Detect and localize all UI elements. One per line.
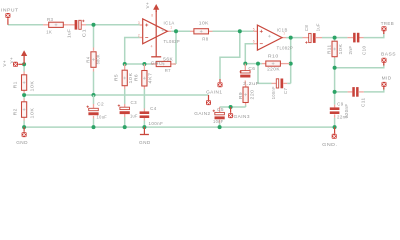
svg-text:1uF: 1uF bbox=[130, 113, 138, 119]
wire C9 to bottom bus bbox=[334, 118, 336, 127]
wire R7 to feedback riser bbox=[174, 63, 177, 65]
wire feedback bus IC1B bbox=[245, 63, 262, 65]
svg-text:2nF: 2nF bbox=[348, 46, 353, 55]
capacitor C3 bbox=[124, 104, 126, 107]
resistor R6 bbox=[143, 64, 145, 71]
wire C7 branch bbox=[258, 64, 272, 84]
op-amp IC1A triangle bbox=[140, 24, 143, 26]
wire C11 to MID pad riser bbox=[364, 88, 384, 92]
svg-text:R1: R1 bbox=[12, 81, 17, 88]
wire node C to R11 bbox=[334, 38, 336, 42]
wire bass row to pad bbox=[335, 64, 384, 68]
junction C7 branch node bbox=[256, 62, 260, 66]
svg-text:4K7: 4K7 bbox=[148, 73, 153, 84]
resistor R4 bbox=[93, 48, 95, 51]
resistor R3 bbox=[43, 24, 49, 26]
capacitor C10 bbox=[347, 37, 353, 39]
svg-text:V+: V+ bbox=[145, 2, 150, 9]
svg-text:10K: 10K bbox=[30, 107, 35, 119]
junction bottom bus C5 bbox=[218, 125, 222, 129]
capacitor C8 bbox=[303, 37, 309, 39]
resistor R11 bbox=[334, 41, 336, 43]
junction bottom bus R2 bbox=[22, 125, 26, 129]
svg-text:GAIN2: GAIN2 bbox=[194, 111, 210, 117]
capacitor C4 bbox=[143, 109, 145, 112]
wire bass node to mid node bbox=[334, 68, 336, 92]
op-amp IC1A power line bbox=[155, 11, 157, 57]
junction GAIN3 node bbox=[229, 105, 233, 109]
wire C7 right to riser bbox=[287, 82, 291, 84]
svg-text:TL082P: TL082P bbox=[277, 45, 294, 51]
svg-text:10nF: 10nF bbox=[213, 119, 224, 125]
svg-text:GND: GND bbox=[139, 140, 151, 146]
junction R4 mid bus bbox=[92, 93, 96, 97]
svg-text:IC1B: IC1B bbox=[277, 27, 288, 33]
wire node A vertical to R4 bbox=[93, 25, 95, 48]
supply symbol V+ arrow left bbox=[21, 50, 27, 64]
svg-text:10K: 10K bbox=[30, 80, 35, 92]
capacitor C1 bbox=[68, 24, 74, 26]
svg-text:C2: C2 bbox=[97, 101, 104, 107]
connector pad GAIN1 bbox=[219, 79, 221, 82]
svg-text:C10: C10 bbox=[362, 46, 367, 56]
junction bottom bus C9 bbox=[333, 125, 337, 129]
wire R4 to mid bus bbox=[93, 72, 95, 96]
connector pad MID bbox=[383, 87, 385, 90]
svg-text:TL082P: TL082P bbox=[164, 39, 181, 45]
svg-text:GND.: GND. bbox=[322, 142, 337, 148]
svg-text:BASS: BASS bbox=[381, 52, 396, 58]
plus marker IC1A bbox=[145, 24, 148, 27]
op-amp IC1B triangle bbox=[254, 30, 258, 32]
svg-text:C7: C7 bbox=[283, 88, 288, 95]
wire mid node to C9 bbox=[334, 92, 336, 105]
resistor R8 bbox=[190, 30, 194, 32]
svg-text:V+: V+ bbox=[9, 57, 14, 64]
svg-text:V+: V+ bbox=[2, 60, 7, 67]
junction R10 node B bbox=[289, 62, 293, 66]
svg-text:MID: MID bbox=[382, 76, 392, 82]
capacitor C5 bbox=[219, 107, 221, 112]
junction bottom bus C2 bbox=[92, 125, 96, 129]
wire input row bbox=[8, 24, 43, 26]
wire bottom bus bbox=[24, 126, 335, 128]
resistor R2 bbox=[23, 99, 25, 102]
svg-text:10K: 10K bbox=[338, 43, 343, 55]
wire mid bus bbox=[24, 94, 208, 96]
svg-text:1K: 1K bbox=[46, 29, 52, 35]
junction pin6 C6 node bbox=[243, 62, 247, 66]
svg-text:GND: GND bbox=[16, 140, 28, 146]
connector pad TREB bbox=[383, 31, 385, 34]
origin cross IC1B bbox=[268, 35, 271, 38]
svg-text:10uF: 10uF bbox=[97, 115, 108, 121]
junction IC1B output node B bbox=[289, 36, 293, 40]
junction IC1A output bbox=[174, 29, 178, 33]
connector pad GND right bbox=[334, 127, 336, 134]
junction mid node bbox=[333, 90, 337, 94]
svg-text:3: 3 bbox=[138, 21, 140, 25]
resistor R10 bbox=[262, 63, 266, 65]
svg-text:C4: C4 bbox=[150, 106, 157, 112]
origin cross IC1A bbox=[162, 29, 165, 32]
junction feedback bus R6 bbox=[142, 62, 146, 66]
resistor R5 bbox=[124, 64, 126, 70]
wire IC1A pin2 loop bbox=[125, 38, 140, 65]
svg-text:220nF: 220nF bbox=[344, 104, 349, 119]
wire C2 to bottom bus bbox=[93, 119, 95, 128]
connector pad BASS bbox=[383, 62, 385, 65]
svg-text:R8: R8 bbox=[202, 37, 208, 43]
junction bass node bbox=[333, 66, 337, 70]
wire feedback bus IC1A bbox=[125, 63, 153, 65]
svg-text:1uF: 1uF bbox=[67, 29, 72, 38]
junction node C treble bbox=[333, 36, 337, 40]
svg-text:10K: 10K bbox=[128, 72, 133, 84]
wire IC1A output row bbox=[171, 30, 190, 32]
resistor R7 bbox=[151, 63, 157, 65]
wire R2 to bottom bus bbox=[23, 121, 25, 128]
wire R1 to mid bus bbox=[23, 93, 25, 95]
svg-text:5: 5 bbox=[253, 27, 255, 31]
wire feedback riser IC1A bbox=[175, 31, 177, 64]
svg-text:C11: C11 bbox=[361, 98, 366, 108]
wire GAIN3 row bbox=[220, 106, 246, 108]
wire IC1B output to C8 bbox=[286, 37, 303, 39]
wire R5 to C3 bbox=[124, 89, 126, 104]
svg-text:100nF: 100nF bbox=[271, 86, 276, 99]
wire node B riser IC1B bbox=[290, 38, 292, 84]
svg-text:C6: C6 bbox=[248, 66, 255, 72]
svg-text:100nF: 100nF bbox=[149, 121, 164, 127]
capacitor C6 bbox=[244, 64, 246, 71]
wire C6 to R9 bbox=[244, 81, 246, 85]
svg-text:GND: GND bbox=[151, 60, 163, 66]
svg-text:8: 8 bbox=[151, 14, 153, 18]
wire C8 to node C bbox=[322, 37, 335, 39]
wire C1 to node A bbox=[86, 24, 140, 26]
wire C4 to bottom bus bbox=[143, 121, 145, 128]
svg-text:C1: C1 bbox=[81, 29, 86, 38]
plus marker IC1B bbox=[260, 30, 263, 33]
wire IC1B pin6 loop bbox=[245, 44, 253, 64]
svg-text:R9: R9 bbox=[238, 92, 243, 99]
svg-text:6: 6 bbox=[253, 40, 255, 44]
ground symbol bottom middle bbox=[143, 127, 145, 134]
svg-text:R2: R2 bbox=[12, 108, 17, 115]
wire V+ node to R1 bbox=[23, 64, 25, 71]
svg-text:C5: C5 bbox=[217, 107, 224, 113]
svg-text:TREB: TREB bbox=[381, 21, 394, 27]
wire C10 to TREB pad riser bbox=[364, 33, 384, 38]
wire R8 to IC1B pin5 bbox=[213, 30, 254, 32]
connector pad INPUT bbox=[7, 18, 9, 25]
svg-text:GAIN1: GAIN1 bbox=[206, 90, 222, 96]
wire C3 to bottom bus bbox=[124, 117, 126, 127]
minus marker IC1B bbox=[260, 43, 263, 45]
svg-text:IC1A: IC1A bbox=[164, 20, 175, 26]
capacitor C9 bbox=[334, 105, 336, 108]
svg-text:R10: R10 bbox=[268, 54, 279, 60]
junction feedback bus left bbox=[123, 62, 127, 66]
junction bottom bus C4 bbox=[142, 125, 146, 129]
supply symbol V+ arrow IC1A bbox=[153, 4, 159, 12]
svg-text:4: 4 bbox=[151, 45, 153, 49]
svg-text:R7: R7 bbox=[165, 68, 171, 74]
wire mid row to C11 bbox=[335, 91, 348, 93]
svg-text:R5: R5 bbox=[114, 74, 119, 81]
wire R11 to bass node bbox=[334, 58, 336, 68]
connector pad GAIN3 bbox=[230, 107, 232, 113]
wire R6 to C4 bbox=[143, 89, 145, 109]
minus marker IC1A bbox=[145, 37, 148, 39]
connector pad GND left bbox=[23, 127, 25, 132]
capacitor C7 bbox=[272, 82, 277, 84]
wire treble row to C10 bbox=[335, 37, 348, 39]
svg-text:R11: R11 bbox=[327, 45, 332, 55]
svg-text:2: 2 bbox=[138, 33, 140, 37]
junction bottom bus C3 bbox=[123, 125, 127, 129]
capacitor C2 bbox=[93, 95, 95, 104]
wire R9 to GAIN3 row bbox=[245, 105, 247, 107]
junction R8 out / GAIN1 bbox=[238, 29, 242, 33]
svg-text:680K: 680K bbox=[96, 54, 101, 64]
ground symbol IC1A bbox=[151, 56, 161, 58]
svg-text:R6: R6 bbox=[133, 74, 138, 81]
capacitor C11 bbox=[348, 91, 353, 93]
junction node A bbox=[92, 23, 96, 27]
svg-text:10K: 10K bbox=[199, 20, 209, 26]
svg-text:GAIN3: GAIN3 bbox=[234, 114, 250, 120]
wire GAIN1 branch bbox=[220, 31, 240, 79]
junction R1-R2 mid bus bbox=[22, 93, 26, 97]
junction V+ node bbox=[22, 62, 26, 66]
svg-text:1uF: 1uF bbox=[316, 23, 321, 31]
resistor R9 bbox=[245, 84, 247, 87]
wire mid bus to R2 bbox=[23, 95, 25, 99]
svg-text:220K: 220K bbox=[267, 67, 280, 73]
svg-text:INPUT: INPUT bbox=[1, 7, 19, 13]
svg-text:R3: R3 bbox=[47, 17, 53, 23]
svg-text:R4: R4 bbox=[86, 57, 91, 63]
svg-text:C9: C9 bbox=[337, 101, 344, 107]
svg-text:C3: C3 bbox=[131, 100, 138, 106]
resistor R1 bbox=[23, 72, 25, 75]
connector pad V+ bbox=[13, 62, 18, 67]
svg-text:220: 220 bbox=[250, 90, 255, 100]
connector pad GAIN2 bbox=[208, 95, 210, 100]
svg-text:56K: 56K bbox=[163, 57, 173, 63]
svg-text:C8: C8 bbox=[304, 25, 309, 32]
wire C5 to bottom bus bbox=[219, 123, 221, 127]
